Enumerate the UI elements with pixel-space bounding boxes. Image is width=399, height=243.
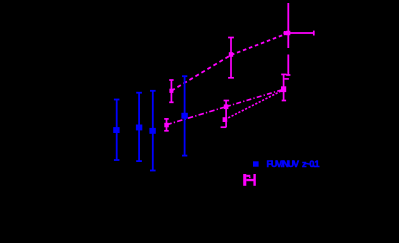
- magenta point P1 marker: [169, 89, 173, 93]
- svg-text:z~0.1: z~0.1: [302, 159, 320, 169]
- blue errorbar B4: [182, 76, 187, 155]
- legend magenta errorbar glyph top stub: [246, 175, 250, 177]
- magenta errorbar P2: [228, 38, 234, 78]
- blue errorbar B1: [114, 100, 120, 161]
- magenta point P4 marker: [281, 86, 286, 92]
- legend magenta errorbar glyph connector: [246, 179, 253, 181]
- blue errorbar B3: [150, 91, 156, 171]
- magenta errorbar P3 right cap: [313, 31, 315, 36]
- magenta errorbar PmidA/PmidB shared vertical: [221, 101, 230, 128]
- magenta dashdot line A seg1: [166, 107, 226, 125]
- magenta errorbar Psmall: [164, 119, 169, 131]
- magenta errorbar P3 bottom cap: [286, 74, 290, 76]
- blue point B3 marker: [149, 128, 155, 134]
- magenta P4 right stub: [285, 78, 289, 80]
- magenta errorbar P3 vertical lower: [287, 55, 289, 76]
- magenta point P2 marker: [229, 52, 233, 57]
- magenta errorbar P3 left cap: [284, 31, 286, 35]
- magenta point Psmall marker: [164, 123, 169, 128]
- blue point B2 marker: [136, 125, 142, 131]
- magenta errorbar P1: [169, 80, 173, 102]
- legend magenta errorbar glyph left cap: [243, 174, 246, 186]
- blue point B1 marker: [113, 127, 119, 133]
- blue errorbar B2: [136, 93, 142, 161]
- magenta errorbar P3 horizontal: [285, 32, 314, 34]
- magenta point P3 marker: [283, 31, 290, 36]
- blue point B4 marker: [181, 113, 187, 119]
- legend magenta errorbar glyph stub tick: [249, 177, 250, 178]
- legend blue marker: [253, 161, 259, 166]
- magenta errorbar P3 vertical upper: [287, 3, 289, 48]
- svg-text:FUV/NUV: FUV/NUV: [267, 159, 300, 169]
- magenta dashdot line A seg2: [226, 89, 284, 106]
- magenta errorbar P4: [281, 74, 286, 100]
- magenta dashed line P2-P3: [231, 33, 288, 55]
- magenta dotted line B: [225, 90, 284, 120]
- legend magenta errorbar glyph right cap: [253, 174, 255, 186]
- magenta point PmidA marker: [224, 104, 229, 109]
- magenta dashed line P1-P2: [171, 55, 231, 91]
- magenta point PmidB marker: [223, 117, 228, 122]
